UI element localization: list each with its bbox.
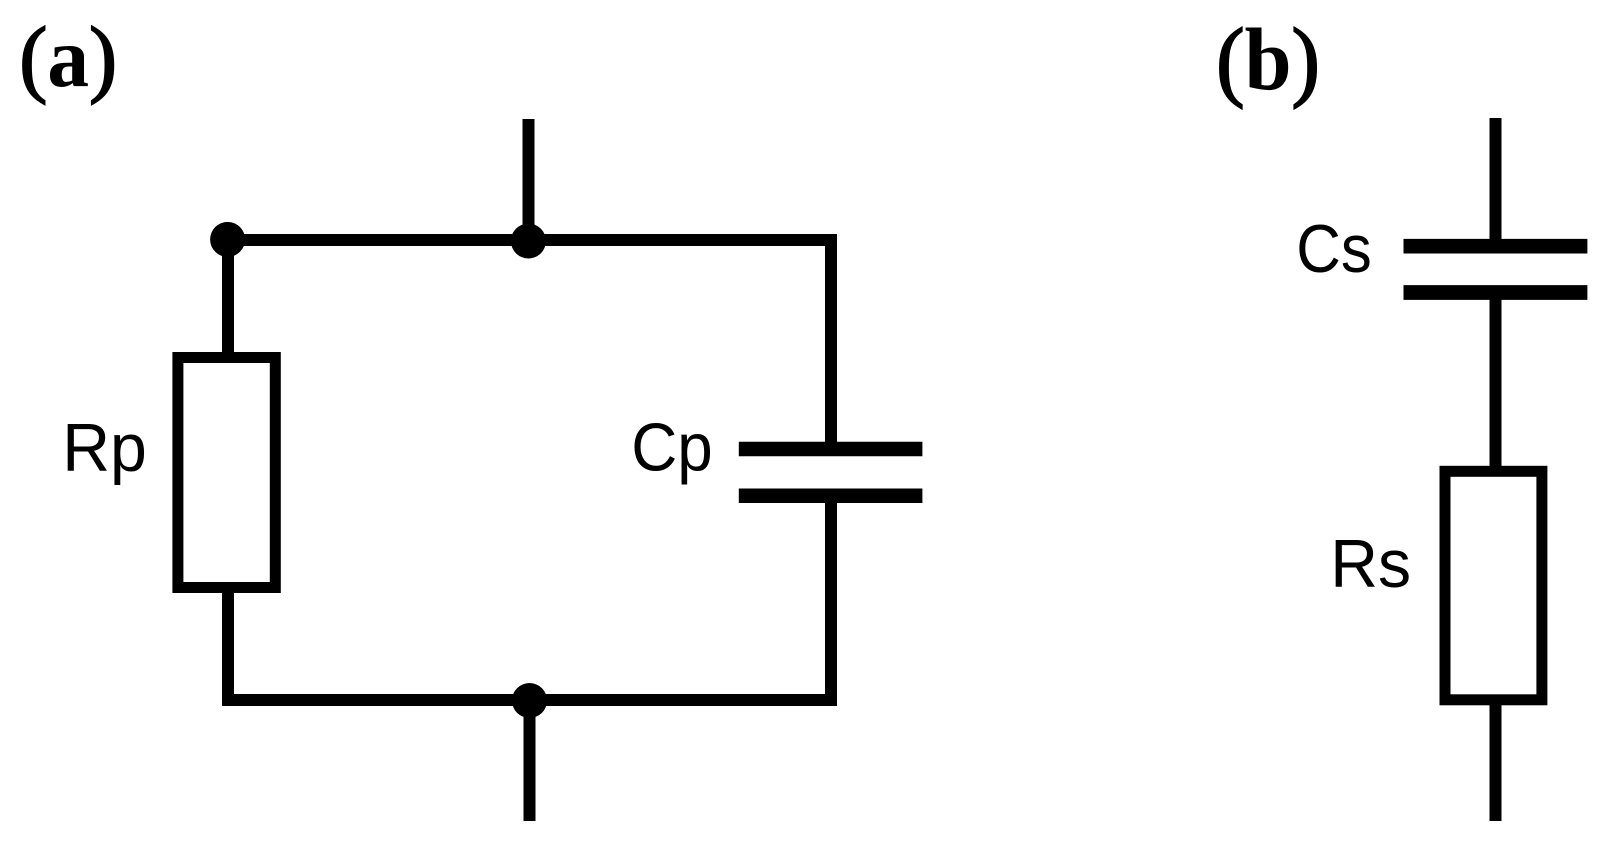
svg-text:Rp: Rp	[62, 410, 147, 486]
svg-text:(b): (b)	[1216, 11, 1320, 109]
svg-text:(a): (a)	[19, 11, 117, 105]
svg-text:Cp: Cp	[631, 409, 713, 485]
svg-text:Rs: Rs	[1330, 526, 1411, 602]
svg-text:Cs: Cs	[1296, 210, 1372, 286]
